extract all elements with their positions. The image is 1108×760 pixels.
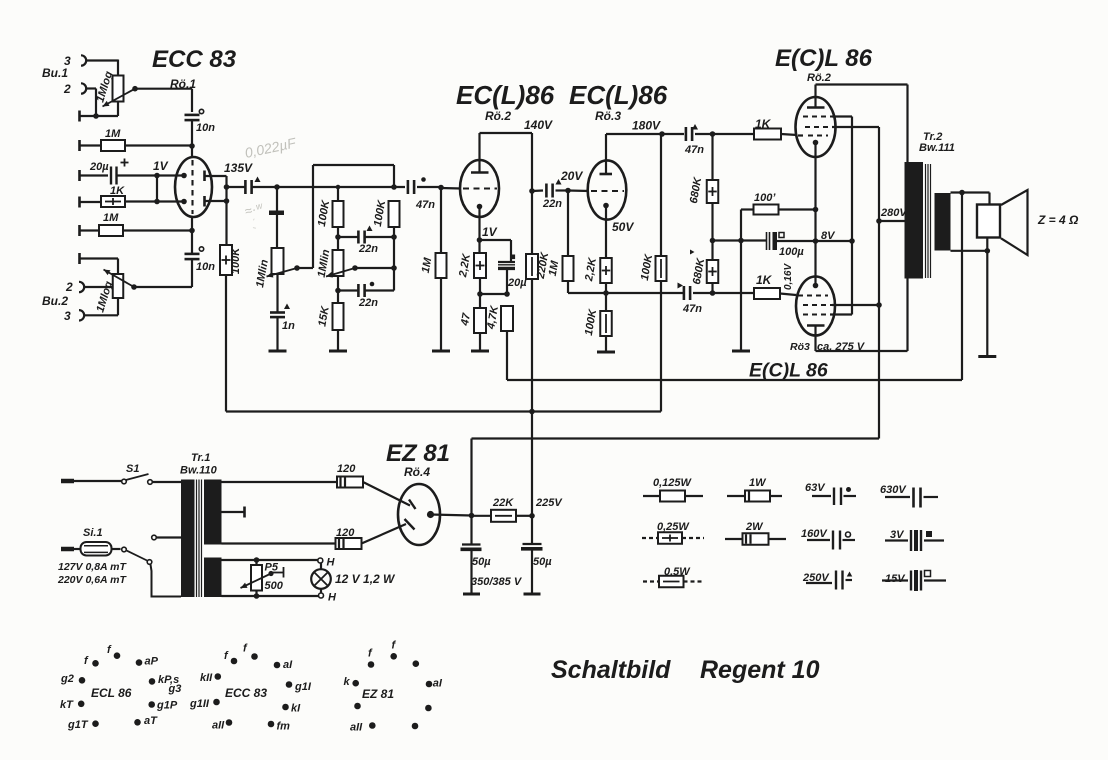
resistor 100K tone left bbox=[337, 187, 339, 201]
wiper arrow bass bbox=[267, 268, 298, 277]
capacitor 50u second bbox=[531, 516, 533, 544]
mains tap circle bbox=[152, 535, 157, 540]
svg-text:180V: 180V bbox=[632, 119, 661, 133]
wire 120u to EZ81 bbox=[363, 482, 410, 506]
capacitor 22n coupling2 bbox=[532, 189, 543, 192]
wire anode join bbox=[225, 176, 227, 245]
svg-text:0,125W: 0,125W bbox=[653, 477, 693, 489]
potentiometer 1Mlin bass bbox=[272, 248, 284, 274]
resistor 2.2K Ro2 bbox=[478, 240, 480, 253]
svg-text:1V: 1V bbox=[482, 225, 498, 239]
svg-text:20V: 20V bbox=[560, 169, 583, 183]
svg-text:100K: 100K bbox=[316, 198, 333, 227]
speaker bbox=[977, 205, 1000, 238]
svg-text:g3: g3 bbox=[168, 683, 182, 695]
svg-text:47n: 47n bbox=[415, 199, 435, 211]
svg-text:100K: 100K bbox=[639, 252, 656, 281]
svg-text:225V: 225V bbox=[535, 497, 563, 509]
svg-text:g2: g2 bbox=[60, 673, 74, 685]
svg-text:g1I: g1I bbox=[294, 681, 312, 693]
svg-text:140V: 140V bbox=[524, 118, 553, 132]
svg-text:EZ 81: EZ 81 bbox=[386, 440, 450, 467]
capacitor 47n coupling1 bbox=[407, 180, 410, 194]
tube EC(L)86 Ro.2 bbox=[460, 160, 499, 217]
svg-text:Rö.4: Rö.4 bbox=[404, 465, 430, 479]
resistor 1M grid Ro2 bbox=[440, 188, 442, 254]
transformer Tr.1 primary bbox=[181, 480, 195, 598]
pinout ECL86 dots bbox=[92, 660, 99, 667]
lower cathode dot bbox=[813, 283, 819, 289]
resistor 15K bbox=[333, 303, 344, 330]
svg-text:Rö3: Rö3 bbox=[790, 341, 810, 353]
svg-text:20µ: 20µ bbox=[89, 161, 109, 173]
svg-text:aI: aI bbox=[433, 678, 443, 690]
svg-text:350/385 V: 350/385 V bbox=[471, 576, 523, 588]
resistor 100K Ro3 anode load bbox=[660, 134, 662, 256]
wire Bu1-2 down bbox=[86, 87, 96, 89]
pinout EZ81 dots bbox=[368, 661, 375, 668]
tube EZ81 bbox=[398, 484, 440, 545]
svg-text:3V: 3V bbox=[890, 529, 905, 541]
svg-text:680K: 680K bbox=[691, 256, 708, 285]
pinout ECC83 dots bbox=[231, 658, 238, 665]
svg-text:1n: 1n bbox=[282, 320, 295, 332]
svg-text:Rö.2: Rö.2 bbox=[485, 109, 511, 123]
wire grid Ro3 bbox=[568, 189, 589, 192]
resistor 680K upper bbox=[711, 134, 713, 180]
potentiometer 1Mlin treble bbox=[337, 227, 339, 250]
wire P to tone pot bbox=[276, 187, 278, 248]
svg-text:15K: 15K bbox=[316, 304, 332, 327]
ground 15K bbox=[329, 350, 347, 353]
resistor 4.7K feedback bbox=[501, 306, 513, 331]
svg-text:100K: 100K bbox=[583, 307, 600, 336]
node Bu.1 pin3 jack bbox=[81, 55, 86, 65]
svg-text:Bu.2: Bu.2 bbox=[42, 294, 68, 308]
capacitor 100u bbox=[741, 239, 766, 241]
svg-text:ca. 275 V: ca. 275 V bbox=[817, 341, 866, 353]
svg-text:680K: 680K bbox=[688, 175, 705, 204]
svg-text:H: H bbox=[328, 592, 337, 604]
svg-text:3: 3 bbox=[64, 309, 71, 323]
svg-text:100’: 100’ bbox=[754, 192, 776, 204]
ground 1M Ro2 bbox=[432, 350, 450, 353]
lower g3 dashes bbox=[803, 313, 830, 315]
wiper arrow pot1 bbox=[103, 89, 136, 107]
svg-text:E(C)L 86: E(C)L 86 bbox=[775, 45, 873, 72]
ground 1n bbox=[269, 350, 287, 353]
svg-text:Rö.3: Rö.3 bbox=[595, 109, 621, 123]
ground 47 bbox=[471, 350, 489, 353]
wire cathode left links bbox=[157, 174, 184, 176]
svg-text:135V: 135V bbox=[224, 161, 253, 175]
svg-text:0,022µF: 0,022µF bbox=[243, 134, 298, 161]
svg-text:1M: 1M bbox=[105, 128, 121, 140]
svg-text:22K: 22K bbox=[492, 497, 514, 509]
capacitor 22n tone1 bbox=[335, 234, 341, 240]
transformer Tr.1 core bbox=[196, 480, 198, 598]
svg-text:22n: 22n bbox=[542, 198, 562, 210]
svg-text:aI: aI bbox=[283, 659, 293, 671]
potentiometer P5 500 bbox=[251, 565, 262, 591]
lower g2 dashes bbox=[803, 304, 832, 306]
capacitor 47n lower bbox=[606, 292, 684, 294]
svg-text:22n: 22n bbox=[358, 297, 378, 309]
svg-text:0,16V: 0,16V bbox=[783, 263, 794, 290]
lower anode bbox=[807, 324, 825, 327]
svg-text:k: k bbox=[344, 676, 351, 688]
Ro3 anode bbox=[605, 134, 607, 174]
svg-text:EZ 81: EZ 81 bbox=[362, 687, 394, 701]
ground 50u second bbox=[524, 593, 541, 596]
wire pot1 bottom rail bbox=[78, 111, 81, 122]
resistor 47 Ro2 bbox=[474, 308, 486, 333]
ground 50u first bbox=[463, 593, 480, 596]
tube EC(L)86 Ro.3 bbox=[588, 160, 627, 219]
node Bu.1 pin2 jack bbox=[81, 83, 86, 93]
svg-text:g1T: g1T bbox=[67, 719, 89, 731]
lamp 12V bbox=[311, 569, 331, 589]
svg-text:100K: 100K bbox=[372, 198, 389, 227]
svg-text:47n: 47n bbox=[682, 303, 702, 315]
capacitor 10n lower bbox=[191, 231, 193, 255]
svg-text:1W: 1W bbox=[749, 477, 767, 489]
svg-text:ECL 86: ECL 86 bbox=[91, 686, 132, 700]
terminal H bottom bbox=[319, 593, 324, 598]
wire 120l to EZ81 bbox=[362, 524, 407, 544]
resistor 1M grid Ro3 bbox=[567, 191, 569, 257]
resistor 680K lower bbox=[711, 241, 713, 261]
svg-text:0,25W: 0,25W bbox=[657, 521, 690, 533]
EZ81 anode strokes bbox=[409, 500, 416, 510]
capacitor coupling Ro1 bbox=[227, 186, 246, 188]
svg-text:220V 0,6A mT: 220V 0,6A mT bbox=[57, 574, 127, 586]
svg-text:50µ: 50µ bbox=[472, 556, 491, 568]
potentiometer 1Mlog Bu.2 bbox=[113, 274, 124, 298]
svg-text:100K: 100K bbox=[230, 247, 242, 274]
upper g3 dashes bbox=[803, 115, 832, 117]
wire 100ohm ground leg bbox=[740, 210, 742, 352]
resistor 100K Ro3 lower bbox=[605, 293, 607, 311]
svg-text:P5: P5 bbox=[265, 562, 279, 574]
svg-text:aP: aP bbox=[145, 656, 159, 668]
wire Bu2-2 bbox=[84, 286, 113, 288]
terminal H top bbox=[318, 558, 323, 563]
svg-text:f: f bbox=[392, 640, 397, 652]
svg-text:Regent 10: Regent 10 bbox=[700, 656, 820, 684]
mains terminal 1 bbox=[61, 479, 74, 484]
upper anode bbox=[807, 106, 825, 109]
wire pot2 top bbox=[78, 253, 81, 264]
svg-text:f: f bbox=[368, 648, 373, 660]
svg-text:1V: 1V bbox=[153, 159, 169, 173]
svg-text:ˈˍ: ˈˍ bbox=[249, 217, 258, 230]
wire P to 47n bbox=[277, 186, 405, 188]
svg-text:EC(L)86: EC(L)86 bbox=[569, 80, 668, 110]
wiper arrow treble bbox=[326, 268, 355, 277]
fuse output circle bbox=[122, 547, 127, 552]
svg-text:1M: 1M bbox=[547, 259, 562, 277]
svg-text:22n: 22n bbox=[358, 243, 378, 255]
svg-text:160V: 160V bbox=[801, 528, 828, 540]
svg-text:1M: 1M bbox=[103, 212, 119, 224]
svg-text:kI: kI bbox=[291, 703, 301, 715]
svg-text:50µ: 50µ bbox=[533, 556, 552, 568]
svg-text:f: f bbox=[243, 643, 248, 655]
resistor 100K anode load bbox=[220, 245, 232, 275]
svg-text:aII: aII bbox=[212, 720, 225, 732]
svg-text:f: f bbox=[107, 644, 112, 656]
svg-text:Schaltbild: Schaltbild bbox=[551, 656, 671, 684]
wire B+ to supply bbox=[472, 437, 880, 439]
svg-text:Tr.1: Tr.1 bbox=[191, 452, 210, 464]
capacitor 10n upper bbox=[185, 114, 200, 117]
svg-text:g1II: g1II bbox=[189, 698, 210, 710]
wire pot1 wiper to grid bbox=[135, 88, 192, 90]
HV centertap bbox=[222, 511, 245, 513]
svg-text:10n: 10n bbox=[196, 122, 215, 134]
svg-text:20µ: 20µ bbox=[507, 277, 527, 289]
Ro3 cathode bbox=[603, 203, 609, 209]
capacitor 1n bbox=[276, 274, 278, 312]
svg-text:aT: aT bbox=[144, 715, 158, 727]
svg-text:2W: 2W bbox=[745, 521, 764, 533]
transformer Tr.1 secondary HV bbox=[204, 480, 222, 545]
svg-text:f: f bbox=[224, 650, 229, 662]
svg-text:2,2K: 2,2K bbox=[457, 252, 473, 279]
svg-text:4,7K: 4,7K bbox=[485, 304, 501, 331]
node Bu.2 pin3 jack bbox=[79, 310, 84, 320]
svg-text:47n: 47n bbox=[684, 144, 704, 156]
svg-text:Bw.110: Bw.110 bbox=[180, 465, 218, 477]
svg-text:12 V 1,2 W: 12 V 1,2 W bbox=[335, 572, 396, 586]
ground 100K Ro3 bbox=[597, 351, 615, 354]
wire 680K junction bbox=[713, 239, 742, 241]
wire top rail bbox=[313, 164, 394, 166]
capacitor 22n tone2 bbox=[335, 288, 341, 294]
tube ECC83 Ro.1 bbox=[175, 157, 212, 217]
svg-text:Bu.1: Bu.1 bbox=[42, 66, 68, 80]
svg-text:ECC 83: ECC 83 bbox=[225, 686, 267, 700]
svg-text:1M: 1M bbox=[420, 256, 435, 274]
tube E(C)L86 lower bbox=[796, 277, 835, 336]
svg-text:630V: 630V bbox=[880, 484, 907, 496]
wiper arrow pot2 bbox=[104, 270, 135, 288]
capacitor 50u first bbox=[470, 516, 472, 545]
wire S1 to Tr1 bbox=[152, 481, 181, 483]
transformer Tr.1 secondary heater bbox=[204, 558, 222, 598]
svg-text:EC(L)86: EC(L)86 bbox=[456, 80, 555, 110]
ECC83 grid dots bbox=[181, 173, 187, 179]
wire secondary top bbox=[951, 191, 990, 193]
ground speaker bbox=[986, 251, 988, 357]
svg-text:Bw.111: Bw.111 bbox=[919, 142, 955, 154]
resistor 100K tone right bbox=[389, 201, 400, 227]
svg-text:63V: 63V bbox=[805, 482, 826, 494]
transformer Tr.2 core bbox=[925, 164, 927, 278]
Ro2 cathode bbox=[477, 204, 483, 210]
svg-text:500: 500 bbox=[265, 580, 284, 592]
svg-text:1Mlin: 1Mlin bbox=[254, 258, 271, 288]
ECC83 anode bars bbox=[203, 171, 206, 182]
wire feedback line bbox=[507, 379, 962, 381]
svg-text:47: 47 bbox=[459, 312, 473, 328]
svg-text:≈·ʷ: ≈·ʷ bbox=[243, 199, 266, 219]
ground 100ohm bbox=[732, 350, 750, 353]
wire pot2 bottom bbox=[84, 314, 118, 316]
wire Bu1-3 to pot top bbox=[86, 59, 118, 61]
upper g2 dashes bbox=[805, 126, 832, 128]
wire secondary bottom bbox=[951, 250, 990, 252]
wire grid bottom bbox=[191, 217, 193, 231]
svg-text:120: 120 bbox=[337, 463, 356, 475]
wire heater top bbox=[222, 559, 318, 561]
svg-text:f: f bbox=[84, 655, 89, 667]
svg-text:Si.1: Si.1 bbox=[83, 527, 103, 539]
svg-text:fm: fm bbox=[277, 721, 291, 733]
svg-text:1K: 1K bbox=[756, 273, 773, 287]
svg-text:ECC 83: ECC 83 bbox=[152, 46, 237, 73]
svg-text:2: 2 bbox=[65, 280, 73, 294]
svg-text:127V 0,8A mT: 127V 0,8A mT bbox=[58, 561, 127, 573]
node Bu.2 pin2 jack bbox=[79, 282, 84, 292]
resistor 2.2K Ro3 bbox=[600, 258, 612, 283]
capacitor 47n upper bbox=[662, 133, 684, 135]
capacitor 20u Ro2 bbox=[498, 261, 515, 263]
wire grid Ro2 bbox=[441, 187, 461, 190]
resistor 220K bbox=[526, 254, 538, 279]
svg-text:100µ: 100µ bbox=[779, 246, 804, 258]
transformer Tr.2 secondary bbox=[935, 193, 951, 251]
svg-text:2,2K: 2,2K bbox=[583, 256, 599, 283]
wire 225V bus bbox=[226, 410, 661, 412]
wire fuse to Tr1 bottom bbox=[151, 565, 182, 597]
svg-text:15V: 15V bbox=[885, 573, 906, 585]
svg-text:S1: S1 bbox=[126, 463, 139, 475]
svg-text:kT: kT bbox=[60, 699, 74, 711]
svg-text:10n: 10n bbox=[196, 261, 215, 273]
svg-text:H: H bbox=[327, 557, 336, 569]
wire heater bottom bbox=[222, 595, 320, 597]
EZ81 cathode bbox=[427, 511, 434, 518]
wire bass wiper to rail bbox=[297, 267, 313, 269]
svg-text:2: 2 bbox=[63, 82, 71, 96]
potentiometer 1Mlog Bu.1 bbox=[113, 76, 124, 102]
Ro2 anode bbox=[478, 133, 480, 172]
svg-text:kII: kII bbox=[200, 672, 213, 684]
upper cathode bbox=[813, 140, 819, 146]
tube E(C)L86 upper bbox=[796, 97, 836, 157]
svg-text:Z = 4 Ω: Z = 4 Ω bbox=[1037, 213, 1079, 227]
svg-text:g1P: g1P bbox=[156, 700, 178, 712]
svg-text:E(C)L 86: E(C)L 86 bbox=[749, 360, 828, 382]
svg-text:aII: aII bbox=[350, 722, 363, 734]
transformer Tr.2 primary bbox=[905, 162, 924, 279]
svg-text:Rö.2: Rö.2 bbox=[807, 72, 831, 84]
svg-text:50V: 50V bbox=[612, 220, 634, 234]
svg-text:280V: 280V bbox=[880, 207, 908, 219]
